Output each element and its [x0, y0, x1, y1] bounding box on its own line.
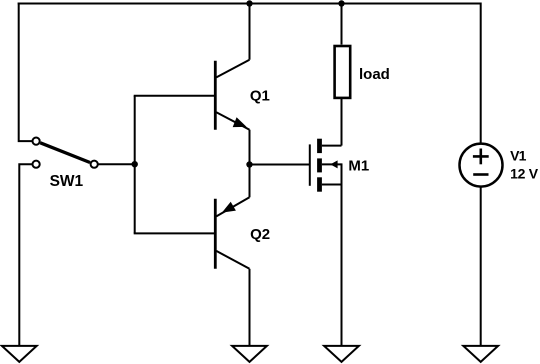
resistor load [335, 46, 390, 98]
wire top rail to load [341, 3, 343, 45]
wire Q1 base [134, 95, 216, 97]
SW1 top throw terminal [33, 138, 40, 145]
wire node B to M1 gate [250, 164, 310, 166]
Q2 emitter arrow [222, 202, 236, 213]
switch SW1 [33, 138, 98, 190]
wire Q1 collector to top rail [249, 4, 251, 60]
node junction on top rail at load [338, 0, 344, 6]
Q1 emitter arrow [233, 117, 247, 127]
M1 gate bar [309, 144, 311, 185]
M1 channel segment source [317, 177, 322, 191]
ground under V1 [463, 346, 498, 362]
wire base bus vertical [134, 96, 136, 234]
transistor Q2 (PNP) [215, 197, 270, 268]
transistor Q1 (NPN) [215, 60, 270, 130]
wire top rail [18, 3, 481, 5]
MOSFET M1 (NMOS) [310, 139, 369, 192]
wire Q2 collector to ground [249, 269, 251, 346]
voltage source V1 [460, 144, 539, 187]
wire Q1 emitter to node B [249, 130, 251, 165]
wire M1 source to ground [341, 185, 343, 346]
SW1 bottom throw terminal [33, 161, 40, 168]
V1 minus sign [473, 173, 488, 176]
node A: switch common to transistor bases [132, 161, 138, 167]
svg-text:load: load [359, 66, 390, 83]
wire load to M1 drain [341, 99, 343, 146]
svg-text:12 V: 12 V [510, 165, 539, 181]
wire node B to Q2 emitter [249, 165, 251, 198]
Q2 base bar [214, 199, 217, 269]
V1 circle [460, 144, 503, 187]
SW1 lever [40, 143, 90, 163]
M1 drain stub [322, 145, 342, 147]
wire SW1 common to node A [98, 163, 135, 165]
M1 body-source tie [341, 163, 343, 184]
Q1 emitter diagonal [216, 112, 249, 129]
wire V1 to ground [480, 187, 482, 346]
wire SW1 bottom terminal to ground [19, 164, 32, 346]
svg-text:V1: V1 [510, 148, 527, 164]
svg-text:M1: M1 [348, 157, 369, 174]
V1 plus sign [473, 155, 489, 158]
Q1 base bar [214, 61, 217, 130]
wire top rail to V1 [480, 4, 481, 144]
node B: emitters junction to M1 gate [246, 161, 252, 167]
ground under M1 [324, 346, 359, 362]
wire left drop to SW1 top terminal [19, 3, 32, 142]
M1 body line [322, 163, 342, 165]
ground under SW1 [2, 346, 37, 362]
M1 body arrow [330, 160, 337, 168]
node junction on top rail at Q1 collector [246, 0, 252, 6]
SW1 common terminal [91, 161, 98, 168]
Q2 collector diagonal [216, 251, 249, 269]
svg-text:Q1: Q1 [250, 88, 270, 105]
M1 channel segment body [317, 158, 322, 172]
wire Q2 base [134, 232, 216, 234]
Q2 emitter diagonal [216, 197, 249, 216]
svg-text:Q2: Q2 [250, 226, 270, 243]
Q1 collector diagonal [216, 60, 249, 78]
M1 channel segment drain [317, 139, 322, 153]
svg-text:SW1: SW1 [50, 173, 84, 190]
M1 source stub [322, 184, 342, 186]
ground under Q2 [232, 346, 267, 362]
